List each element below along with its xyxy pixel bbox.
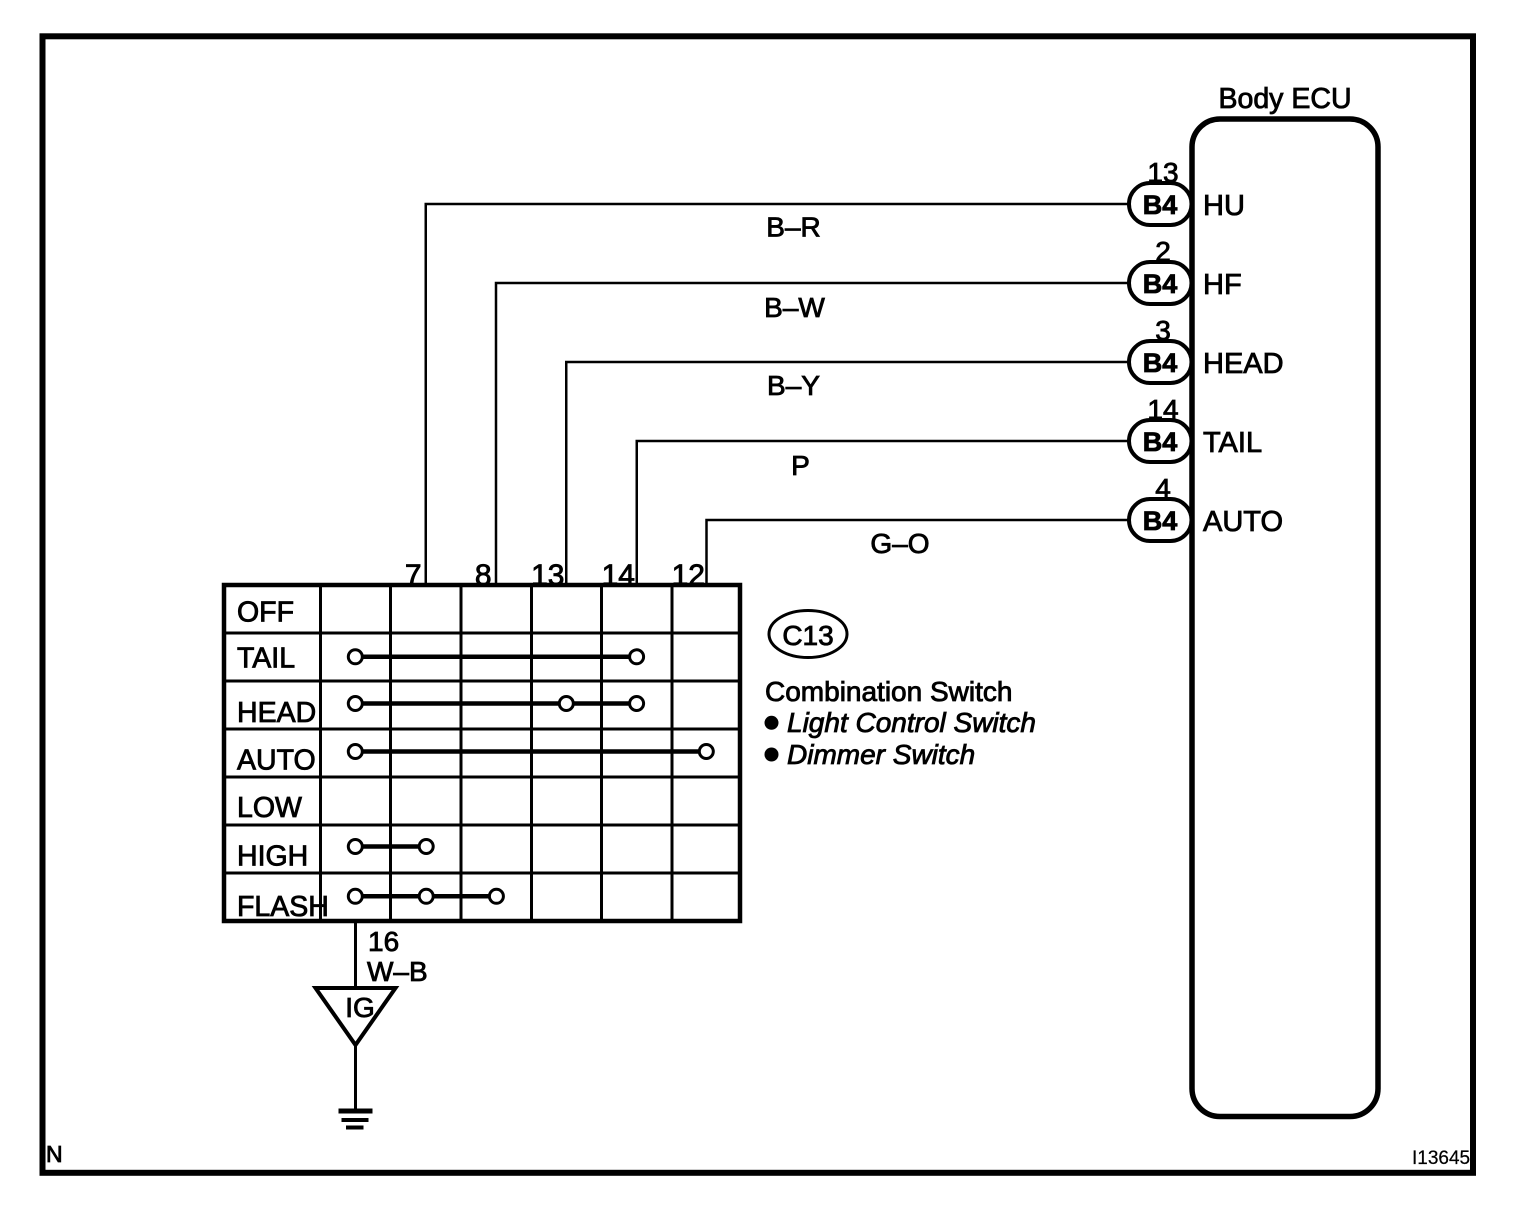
svg-text:Light Control Switch: Light Control Switch [787,707,1036,738]
svg-text:C13: C13 [782,620,833,651]
svg-text:3: 3 [1155,315,1171,346]
svg-text:B4: B4 [1143,190,1178,220]
ground symbol [339,1109,373,1130]
svg-text:B–W: B–W [764,292,825,323]
svg-text:I13645: I13645 [1412,1148,1470,1169]
connector code C13 oval [769,611,847,658]
svg-text:N: N [46,1141,63,1167]
svg-text:OFF: OFF [237,597,294,629]
svg-text:AUTO: AUTO [1203,506,1283,538]
svg-text:B4: B4 [1143,269,1178,299]
wire G-O [707,520,1130,585]
svg-text:HEAD: HEAD [237,697,316,729]
contact AUTO row (16-12) [348,745,713,759]
svg-text:Combination Switch: Combination Switch [765,676,1012,707]
wire B-W [496,283,1129,585]
Body ECU block [1192,119,1378,1117]
svg-text:TAIL: TAIL [237,643,295,675]
wire P [637,441,1129,585]
contact HEAD row (16-13-14) [348,697,643,711]
power symbol IG triangle [316,988,396,1045]
svg-text:B–R: B–R [766,212,820,243]
svg-text:AUTO: AUTO [237,745,316,777]
svg-text:LOW: LOW [237,792,302,824]
svg-text:FLASH: FLASH [237,891,329,923]
wire B-R [426,204,1129,585]
svg-text:HU: HU [1203,190,1245,222]
connector B4 pin 13 (HU) [1129,183,1192,225]
switch table row lines [224,633,740,873]
svg-text:B4: B4 [1143,506,1178,536]
svg-text:HF: HF [1203,269,1242,301]
svg-text:16: 16 [368,926,399,957]
svg-text:G–O: G–O [870,528,929,559]
connector B4 pin 14 (TAIL) [1129,420,1192,462]
svg-text:P: P [791,450,810,481]
switch table frame [224,585,740,921]
wire pin 16 to IG [354,921,357,988]
svg-text:B–Y: B–Y [767,370,820,401]
contact HIGH row (16-7) [348,840,433,854]
bullet 2 [765,748,779,762]
svg-text:4: 4 [1155,473,1171,504]
svg-text:HEAD: HEAD [1203,348,1284,380]
svg-text:B4: B4 [1143,427,1178,457]
svg-text:HIGH: HIGH [237,841,308,873]
svg-text:TAIL: TAIL [1203,427,1262,459]
connector B4 pin 3 (HEAD) [1129,341,1192,383]
connector B4 pin 4 (AUTO) [1129,499,1192,541]
wire B-Y [566,362,1129,585]
bullet 1 [765,716,779,730]
wire IG to ground [354,1045,357,1110]
svg-text:Dimmer Switch: Dimmer Switch [787,739,975,770]
svg-text:W–B: W–B [367,956,428,987]
svg-text:B4: B4 [1143,348,1178,378]
svg-text:13: 13 [1147,157,1178,188]
svg-text:IG: IG [345,992,375,1023]
contact TAIL row (16-14) [348,650,643,664]
svg-text:Body ECU: Body ECU [1218,83,1351,115]
connector B4 pin 2 (HF) [1129,262,1192,304]
svg-text:2: 2 [1155,236,1171,267]
switch table column lines [321,585,673,921]
svg-text:14: 14 [1147,394,1178,425]
contact FLASH row (16-7-8) [348,889,503,903]
